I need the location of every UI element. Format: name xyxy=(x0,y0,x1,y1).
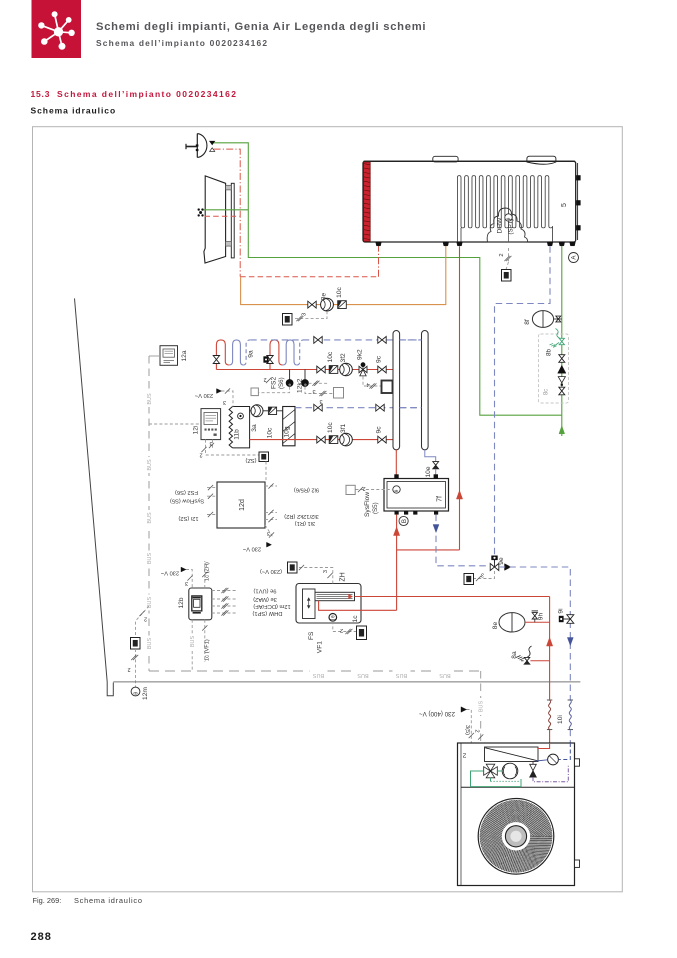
svg-text:7f: 7f xyxy=(437,496,444,502)
svg-text:SysFlow (S5): SysFlow (S5) xyxy=(170,498,204,504)
valve on blue return c2 left xyxy=(314,337,318,344)
svg-text:8f: 8f xyxy=(524,319,531,325)
wire blue crossing to return pipe c1 xyxy=(400,407,422,409)
pump 3e xyxy=(321,298,334,311)
svg-text:(SP1): (SP1) xyxy=(508,219,515,235)
wire 8a to flow line xyxy=(530,660,549,662)
7f sensor SysFlow S5 xyxy=(393,486,400,493)
svg-text:Schemi degli impianti, Genia A: Schemi degli impianti, Genia Air Legenda… xyxy=(96,21,426,33)
cable to outdoor sensor 12m xyxy=(135,649,137,687)
evaporator coil xyxy=(485,747,539,762)
pump 3f1 xyxy=(340,433,353,446)
zone valve 9a with actuator xyxy=(267,356,273,360)
svg-text:Schema idraulico: Schema idraulico xyxy=(31,106,117,116)
wire blue 9e to outdoor unit xyxy=(499,567,571,700)
red flow arrow up xyxy=(456,491,462,500)
valve circuit 2 xyxy=(317,366,321,373)
svg-text:9c: 9c xyxy=(376,355,383,363)
svg-text:3a: 3a xyxy=(251,424,258,432)
svg-text:3: 3 xyxy=(209,440,212,446)
check valve 10c circuit link xyxy=(268,407,276,414)
svg-text:BUS: BUS xyxy=(396,672,408,678)
svg-text:8b: 8b xyxy=(546,349,553,356)
svg-text:(SZ): (SZ) xyxy=(245,457,256,463)
blue arrow down to unit xyxy=(567,638,573,646)
svg-text:8a: 8a xyxy=(511,651,518,659)
refrigerant link xyxy=(536,760,548,761)
4-way valve xyxy=(484,767,491,776)
connector for pump 3e xyxy=(293,311,327,318)
svg-text:DHW (SP1): DHW (SP1) xyxy=(252,610,282,616)
control 12i xyxy=(201,409,221,440)
svg-text:8e: 8e xyxy=(492,622,499,630)
svg-text:θ: θ xyxy=(133,692,139,695)
sensor glyph at radiator xyxy=(198,208,200,210)
safety valve 8b xyxy=(559,338,564,341)
wire 12k2 to connector xyxy=(309,382,330,384)
wire blue crossing to return pipe c2 xyxy=(400,339,422,341)
radiator (towel rail) xyxy=(204,176,226,263)
svg-text:3: 3 xyxy=(481,572,484,578)
svg-text:2: 2 xyxy=(462,752,466,759)
figure frame xyxy=(33,127,623,892)
wire green radiator branch xyxy=(204,209,249,211)
svg-text:(S5): (S5) xyxy=(372,502,379,514)
svg-text:Schema dell’impianto 002023416: Schema dell’impianto 0020234162 xyxy=(57,89,237,99)
buffer tank 7f xyxy=(384,479,449,512)
manifold return pipe xyxy=(422,331,429,450)
svg-text:9e (UV1): 9e (UV1) xyxy=(253,588,276,594)
expansion valve xyxy=(530,764,537,770)
purple refrigerant line xyxy=(533,765,568,782)
valve 9c circuit 1 xyxy=(378,436,382,443)
svg-text:BUS: BUS xyxy=(147,459,153,471)
svg-text:8c: 8c xyxy=(544,389,550,395)
wire orange loop xyxy=(241,244,446,305)
backup heater ZH xyxy=(296,584,361,624)
wire 9k2 actuator cable xyxy=(363,377,382,387)
valve on blue return c1 left xyxy=(314,404,318,411)
DHW cylinder top feet xyxy=(433,156,458,162)
valve at 8f xyxy=(554,318,562,320)
DHW cylinder right edge lugs xyxy=(577,163,579,240)
red arrow to 7f xyxy=(394,527,400,536)
wire blue 7f to 9e valve xyxy=(436,515,488,566)
connector box 9e xyxy=(464,574,474,585)
wire blue return from tank xyxy=(495,246,551,563)
svg-text:9i: 9i xyxy=(558,608,565,614)
svg-text:B: B xyxy=(401,519,408,523)
BUS drop to outdoor unit xyxy=(480,671,482,743)
safety valve 8a xyxy=(524,657,530,660)
svg-text:12d: 12d xyxy=(239,499,246,511)
check valve 10c circuit 1 xyxy=(329,436,338,444)
svg-text:11b: 11b xyxy=(234,429,241,440)
svg-text:10c: 10c xyxy=(327,422,334,433)
BUS horizontal run xyxy=(149,670,481,672)
svg-text:DHW: DHW xyxy=(497,217,504,234)
wire 8e to flow line xyxy=(525,621,550,623)
svg-text:VF1: VF1 xyxy=(317,641,324,653)
outdoor unit right lugs xyxy=(575,759,580,766)
svg-text:FS2 (S6): FS2 (S6) xyxy=(175,489,198,495)
svg-text:1c (VF1): 1c (VF1) xyxy=(205,639,211,661)
junction box at manifold xyxy=(382,381,393,394)
7f bottom ports xyxy=(395,511,399,515)
wire 11b to 10g top link xyxy=(250,410,283,412)
safety group dashed box 8c xyxy=(539,334,569,403)
svg-text:12m: 12m xyxy=(142,687,149,700)
connector box FS2 xyxy=(251,388,258,396)
cable 7f sensor to connector xyxy=(356,489,393,491)
wire red heater to outdoor flow xyxy=(355,596,550,598)
svg-text:230 V~: 230 V~ xyxy=(242,546,261,552)
shower head sensor xyxy=(196,134,198,158)
svg-text:3: 3 xyxy=(323,570,329,573)
flex hose red 10i xyxy=(547,699,552,701)
wire circulation dashed horizontal xyxy=(240,276,378,278)
svg-text:BUS: BUS xyxy=(439,672,451,678)
pump 3a xyxy=(251,405,263,417)
floor heating loop B xyxy=(270,340,283,370)
svg-text:3(5): 3(5) xyxy=(464,725,470,735)
BUS marker 2 at unit xyxy=(478,734,483,739)
connector box 12m xyxy=(131,638,141,650)
svg-text:15.3: 15.3 xyxy=(31,89,51,99)
svg-text:12k2: 12k2 xyxy=(297,378,304,393)
svg-text:BUS: BUS xyxy=(147,393,153,405)
connector box SysFlow xyxy=(346,485,355,494)
power cable 12d xyxy=(265,525,274,538)
7f top ports xyxy=(394,474,398,478)
svg-text:9a: 9a xyxy=(248,350,255,358)
valve circuit 1 xyxy=(317,436,321,443)
cable heater control xyxy=(297,568,333,584)
cable 9e actuator xyxy=(474,571,495,579)
logo starburst xyxy=(55,14,59,32)
expansion vessel 8e xyxy=(499,613,525,632)
svg-text:12i (S2): 12i (S2) xyxy=(178,515,198,521)
svg-text:230 V~: 230 V~ xyxy=(160,570,179,576)
DHW cylinder 5 body xyxy=(363,161,576,242)
outdoor sensor 12m xyxy=(131,687,140,696)
control module 12d xyxy=(217,482,265,528)
BUS riser xyxy=(148,356,150,671)
heat exchanger pool 11b xyxy=(233,407,250,448)
svg-text:10c: 10c xyxy=(336,286,343,297)
flow arrow after 9e xyxy=(505,564,512,571)
refrigerant pump xyxy=(502,763,518,779)
svg-text:3e: 3e xyxy=(321,293,328,301)
svg-text:2: 2 xyxy=(474,729,480,732)
svg-text:BUS: BUS xyxy=(147,597,153,609)
valve on blue return c1 right xyxy=(376,404,380,411)
valve in safety group bottom xyxy=(559,387,565,391)
wire green DHW tank cold feed xyxy=(561,242,563,436)
check valve 10c on orange line xyxy=(338,301,347,309)
wire red into evaporator xyxy=(538,743,550,749)
svg-text:FS2: FS2 xyxy=(271,377,278,389)
sensor 12k2 xyxy=(304,370,306,380)
DHW cylinder bottom feet xyxy=(376,242,382,246)
svg-text:2: 2 xyxy=(340,627,343,633)
svg-text:2: 2 xyxy=(362,485,365,491)
cable 12m branch xyxy=(136,606,150,638)
compressor xyxy=(548,754,559,765)
control 12a xyxy=(160,346,178,366)
svg-text:2: 2 xyxy=(499,253,505,256)
valve 10e xyxy=(433,462,439,466)
svg-text:ZH: ZH xyxy=(340,572,347,581)
valve 9c circuit 2 xyxy=(378,366,382,373)
check valve in safety group xyxy=(558,365,566,373)
wire blue into compressor xyxy=(558,743,570,760)
outdoor unit body xyxy=(458,743,575,886)
svg-text:10c: 10c xyxy=(267,427,274,438)
wire red flow circuit 1 xyxy=(250,439,393,441)
power cable into unit xyxy=(467,710,472,744)
svg-text:1c: 1c xyxy=(352,615,359,623)
3-way valve 9i xyxy=(567,615,574,619)
svg-text:10e: 10e xyxy=(425,466,432,477)
sensor glyph at shower xyxy=(210,141,215,145)
valve on loop A xyxy=(213,356,219,360)
cable 1c ZH from 12b xyxy=(204,561,206,588)
svg-text:12m (DCF/AF): 12m (DCF/AF) xyxy=(253,603,290,609)
svg-text:9e: 9e xyxy=(498,557,505,565)
svg-text:3: 3 xyxy=(267,530,270,536)
fan xyxy=(478,799,554,875)
valve on blue return c2 right xyxy=(378,337,382,344)
svg-text:9k2: 9k2 xyxy=(357,349,364,360)
svg-text:5: 5 xyxy=(561,203,568,207)
svg-text:288: 288 xyxy=(31,931,52,943)
ground line xyxy=(113,681,580,683)
flow sensor FS2 (S6) xyxy=(289,370,291,380)
svg-text:12a: 12a xyxy=(181,350,188,361)
svg-text:BUS: BUS xyxy=(313,672,325,678)
svg-text:Fig. 269:: Fig. 269: xyxy=(33,896,62,905)
wire red DHW flow from tank xyxy=(459,246,461,550)
svg-text:(S6): (S6) xyxy=(278,377,285,389)
cable VF1 to connector xyxy=(333,621,357,631)
wire 12i to BUS xyxy=(149,423,201,425)
wire blue return circuit 2 xyxy=(250,339,421,341)
connector box 12k2 xyxy=(334,388,344,399)
svg-text:3i2/12k2 (R2): 3i2/12k2 (R2) xyxy=(284,513,319,519)
wire red heater bottom to 7f riser xyxy=(319,601,397,611)
svg-text:9c: 9c xyxy=(376,426,383,434)
svg-text:3: 3 xyxy=(319,398,322,404)
svg-text:BUS: BUS xyxy=(479,701,485,713)
cap valve 9h xyxy=(532,613,537,616)
svg-text:12b: 12b xyxy=(178,597,185,608)
svg-text:3: 3 xyxy=(185,580,188,586)
svg-text:3: 3 xyxy=(302,313,308,316)
wire red 7f branch to DHW tank xyxy=(397,549,460,551)
pump 3f2 xyxy=(340,363,353,376)
svg-text:2: 2 xyxy=(144,616,147,622)
wire red 7f to heater loop xyxy=(396,515,398,611)
wire manifold flow to 7f xyxy=(395,450,397,475)
wire SZ to 12d xyxy=(265,462,267,483)
connector for DHW sensor xyxy=(502,270,512,282)
svg-text:(230 V~): (230 V~) xyxy=(260,568,282,574)
wire red flow circuit 2 xyxy=(216,369,393,371)
DHW cylinder red stripe xyxy=(364,162,371,241)
svg-text:230 V~: 230 V~ xyxy=(194,392,213,398)
svg-text:10g: 10g xyxy=(284,426,291,437)
svg-text:3i1 (R1): 3i1 (R1) xyxy=(295,520,316,526)
green refrigerant loop xyxy=(471,771,522,787)
wire circulation dash-dot from shower xyxy=(214,149,241,277)
valve in safety group top xyxy=(559,355,565,359)
svg-text:SysFlow: SysFlow xyxy=(364,492,371,517)
svg-text:230 (400) V~: 230 (400) V~ xyxy=(419,710,455,717)
DHW cylinder top edge restroke xyxy=(364,160,575,162)
cables 12b right ports xyxy=(212,590,237,592)
wire radiator red dashed stub xyxy=(205,215,241,217)
svg-text:12i: 12i xyxy=(193,425,200,434)
svg-text:BUS: BUS xyxy=(357,672,369,678)
check valve 10c circuit 2 xyxy=(329,366,338,374)
wire FS2 to connector xyxy=(259,387,290,393)
building wall line xyxy=(75,298,114,695)
wire blue return circuit 1 xyxy=(295,407,422,409)
green supply arrow xyxy=(559,426,565,434)
svg-text:BUS: BUS xyxy=(147,638,153,650)
svg-text:2: 2 xyxy=(263,376,266,382)
node B circled xyxy=(399,516,408,525)
svg-text:10i: 10i xyxy=(557,715,564,724)
manifold flow pipe xyxy=(393,331,400,450)
wires 12i to SZ connector xyxy=(206,440,260,455)
DHW coil heat exchanger xyxy=(457,176,552,242)
heater element xyxy=(315,592,355,600)
svg-text:2: 2 xyxy=(127,666,130,672)
cable 12b BUS down xyxy=(191,620,193,671)
svg-text:4: 4 xyxy=(366,381,369,387)
wire circulation dash-dot to tank xyxy=(378,244,380,277)
svg-text:3e (MA2): 3e (MA2) xyxy=(253,596,277,602)
svg-text:3f2: 3f2 xyxy=(340,353,347,363)
expansion vessel 8f xyxy=(532,311,553,328)
connector box ZH power xyxy=(288,562,298,573)
blue arrow down from 7f xyxy=(433,525,439,533)
floor heating loop A xyxy=(216,340,229,370)
svg-text:1c (ZH): 1c (ZH) xyxy=(205,562,211,581)
wire green from shower to riser xyxy=(214,143,562,415)
svg-text:Schema idraulico: Schema idraulico xyxy=(74,896,143,905)
svg-text:BUS: BUS xyxy=(147,553,153,565)
svg-text:BUS: BUS xyxy=(147,512,153,524)
svg-text:θ: θ xyxy=(394,489,399,492)
connector box SZ xyxy=(259,452,269,462)
svg-text:3: 3 xyxy=(223,399,226,405)
wires 12d right ports xyxy=(265,485,277,487)
svg-text:9h: 9h xyxy=(538,613,545,621)
svg-text:Schema dell’impianto 002023416: Schema dell’impianto 0020234162 xyxy=(96,38,268,48)
svg-text:2: 2 xyxy=(199,452,202,458)
connector box VF1 xyxy=(357,626,367,640)
drain valve in safety group xyxy=(558,377,565,383)
wire manifold return to 10e xyxy=(425,450,436,461)
plate heat exchanger 10g xyxy=(283,407,295,446)
svg-text:3f1: 3f1 xyxy=(340,423,347,433)
svg-text:FS: FS xyxy=(308,631,315,640)
diverter valve 9e xyxy=(490,564,494,571)
svg-text:9i2 (R5/6): 9i2 (R5/6) xyxy=(294,487,319,493)
svg-text:BUS: BUS xyxy=(190,636,196,648)
logo red square xyxy=(32,0,82,58)
mixing valve 9k2 xyxy=(359,366,363,372)
wires 12d left ports xyxy=(207,487,217,489)
flex hose blue 10i xyxy=(568,699,573,701)
cable 1c VF1 from 12b xyxy=(204,620,206,662)
heater sensor VF1 xyxy=(329,614,337,622)
wire 12a to BUS xyxy=(149,355,160,357)
valve on orange line xyxy=(308,301,312,308)
svg-text:10c: 10c xyxy=(327,351,334,362)
control 12b xyxy=(189,588,212,620)
DHW bulge cloud with sensor SP1 xyxy=(487,208,527,242)
node A circled xyxy=(569,253,579,263)
red arrow up on flow xyxy=(547,638,553,647)
